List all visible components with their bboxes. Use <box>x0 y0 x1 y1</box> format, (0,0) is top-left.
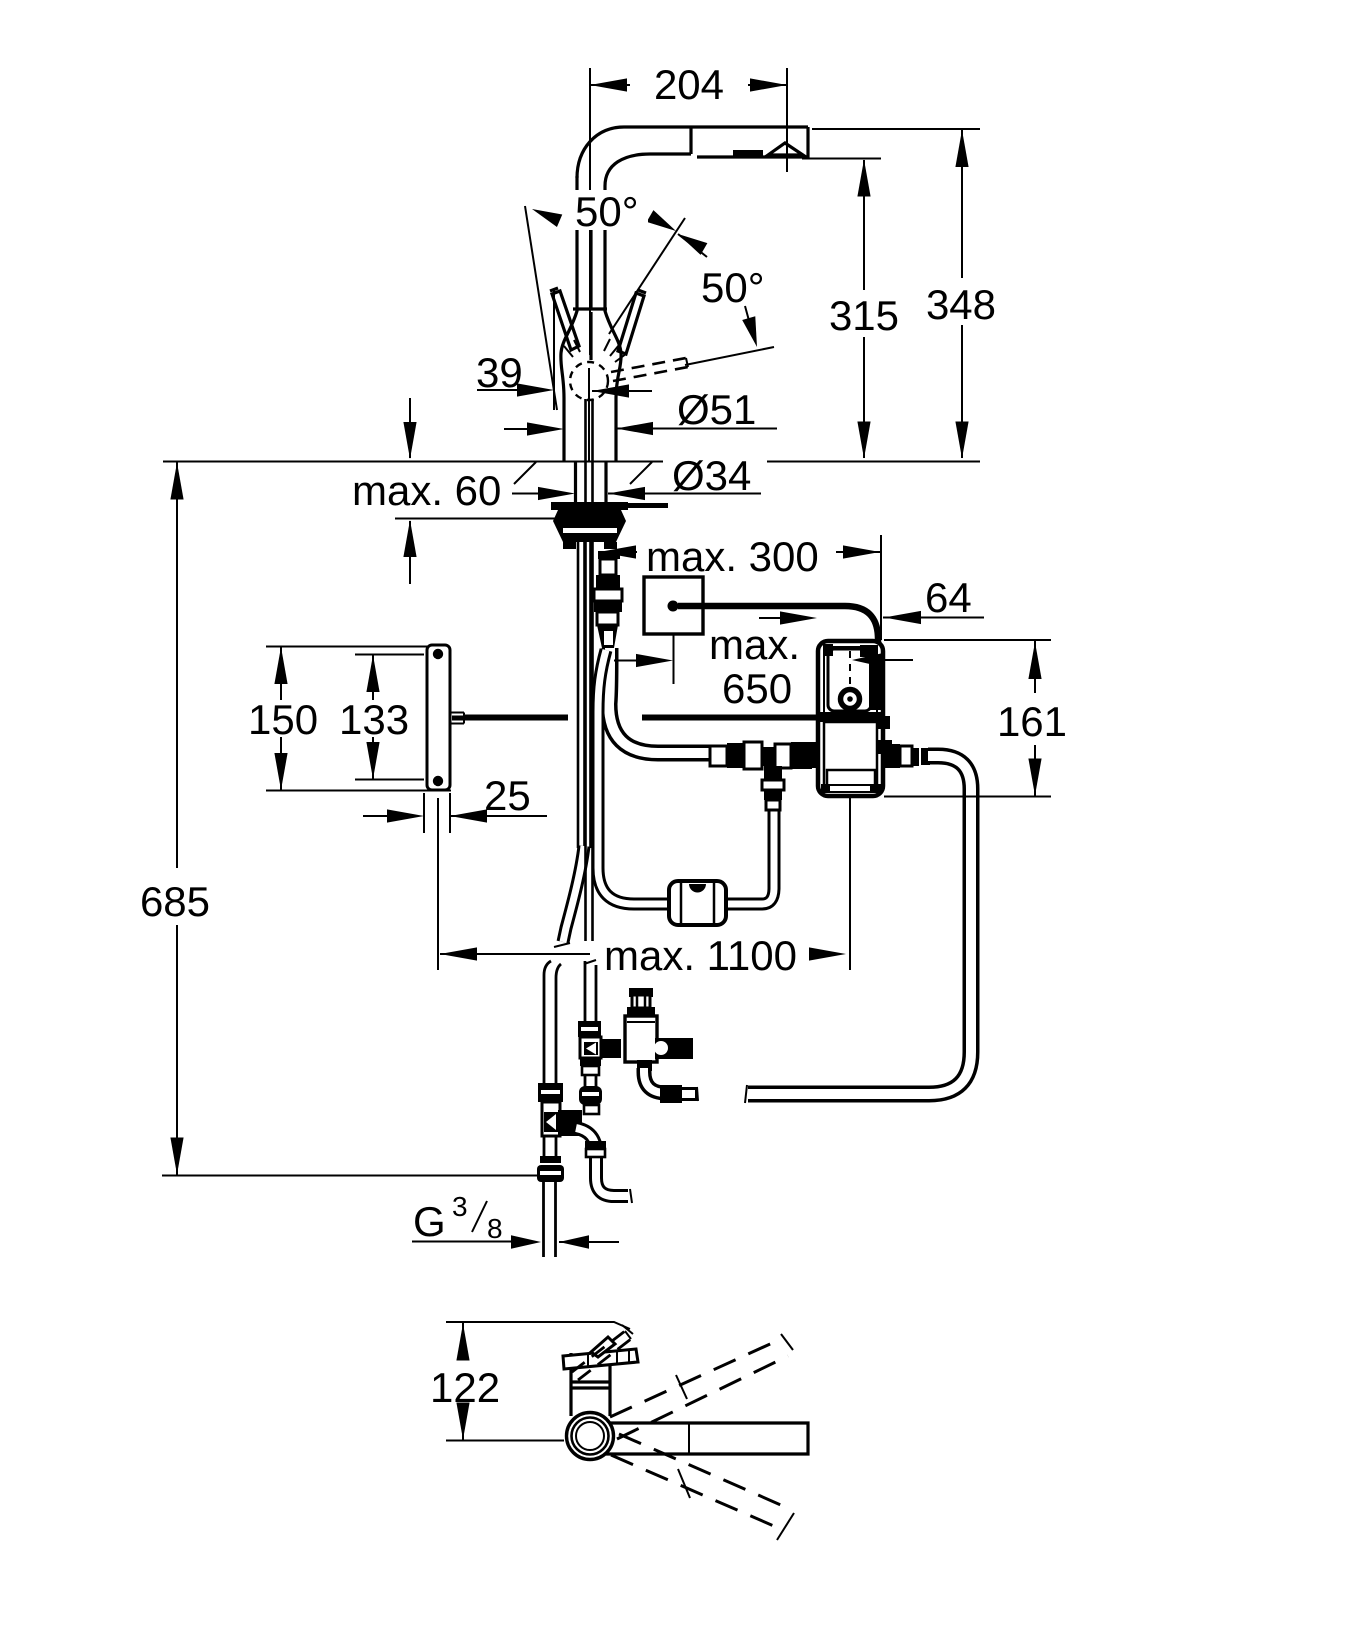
hose from tee A down to open end <box>576 1128 628 1196</box>
dim max60 vertical <box>409 398 411 584</box>
output hose down to drain hose <box>748 756 971 1094</box>
handle base tick <box>573 307 607 310</box>
dim 64 <box>883 617 984 619</box>
box mid dark band <box>820 712 881 722</box>
sensor dashed centerline <box>849 651 851 688</box>
tee B right branch <box>601 1039 621 1058</box>
svg-text:Ø34: Ø34 <box>672 452 751 499</box>
body rect above <box>571 1353 610 1416</box>
dim 161 <box>884 640 1051 797</box>
solid lever <box>563 1349 638 1369</box>
svg-text:161: 161 <box>997 698 1067 745</box>
dim 122 line <box>462 1323 464 1440</box>
threaded shank below counter <box>576 462 607 505</box>
output fitting right of control box <box>884 744 900 768</box>
thick reference line left segment <box>464 715 568 721</box>
tee A right branch elbow <box>558 1110 582 1136</box>
ferrite weight on cable <box>669 881 726 925</box>
spout outer bend <box>577 127 624 178</box>
faucet centerline <box>588 368 590 461</box>
svg-text:150: 150 <box>248 696 318 743</box>
mounting plate <box>427 645 450 790</box>
handle lowered end cap <box>686 358 688 367</box>
dim 685 <box>176 462 178 1175</box>
svg-text:64: 64 <box>925 574 972 621</box>
thick reference line right segment <box>642 715 818 721</box>
svg-text:50°: 50° <box>701 264 765 311</box>
solid lever diagonal tip <box>591 1337 615 1357</box>
dim 39 <box>477 290 652 410</box>
tee A body <box>542 1102 560 1136</box>
svg-text:max. 1100: max. 1100 <box>604 932 797 979</box>
50 right leader line <box>685 306 774 365</box>
dim max300 <box>612 551 881 553</box>
svg-text:8: 8 <box>487 1213 503 1244</box>
dim max650 arrows <box>614 618 782 684</box>
svg-text:G: G <box>413 1198 446 1245</box>
svg-text:max. 300: max. 300 <box>646 533 819 580</box>
685 bottom reference line <box>162 1175 538 1177</box>
plate tab <box>450 713 464 724</box>
dim 150 <box>266 646 451 791</box>
angle stop nut <box>537 1165 564 1182</box>
dim 204 line <box>590 84 787 86</box>
dim max1100 <box>438 798 590 970</box>
sensor window <box>828 649 871 711</box>
escutcheon flange <box>551 502 628 510</box>
sensor LED circle <box>841 690 860 709</box>
box lower inner parts <box>824 722 877 788</box>
svg-text:50°: 50° <box>575 188 639 235</box>
valve right port and elbow fitting <box>655 1038 693 1059</box>
dim D34 <box>512 493 761 495</box>
below tee B rings <box>580 1058 601 1066</box>
hose from faucet to fitting train <box>609 648 712 753</box>
dashed swing arm lower <box>611 1434 790 1530</box>
50 crossing arrows <box>647 210 680 237</box>
cable from wall box to control box <box>678 606 878 646</box>
supply pipe upper (column B) <box>585 961 596 1022</box>
svg-text:25: 25 <box>484 772 531 819</box>
svg-text:122: 122 <box>430 1364 500 1411</box>
supply tail pipe to G3/8 <box>544 1182 556 1257</box>
collar A <box>538 1083 563 1102</box>
dim 133 <box>355 654 424 780</box>
inline fitting train to control box <box>710 746 727 766</box>
sensor cable loop down to ferrite <box>598 650 774 904</box>
svg-text:204: 204 <box>654 61 724 108</box>
svg-text:max. 60: max. 60 <box>352 467 501 514</box>
spout bar <box>606 1423 808 1454</box>
spout inner bend <box>605 154 650 186</box>
svg-text:Ø51: Ø51 <box>677 386 756 433</box>
50 left arrow at line <box>529 203 562 227</box>
spray head outline <box>697 127 808 157</box>
svg-text:315: 315 <box>829 292 899 339</box>
pipe left edge <box>561 176 577 461</box>
dim 122 extension lines <box>446 1322 630 1441</box>
ball joint rays <box>564 339 626 362</box>
dim 348 line <box>961 130 963 458</box>
supply pipe column A <box>544 961 561 978</box>
dim 204 extension lines <box>590 68 787 355</box>
dashed swing arm upper <box>610 1339 788 1439</box>
valve bottom elbow <box>637 1060 652 1071</box>
fitting on that hose <box>585 1141 606 1149</box>
body circles <box>567 1413 614 1460</box>
ext line 348 top <box>812 128 980 130</box>
spray head divider <box>689 127 692 154</box>
ball joint dashed circle <box>570 362 608 400</box>
below tee A pipe <box>544 1136 556 1156</box>
handle lever left position <box>550 288 579 350</box>
svg-text:133: 133 <box>339 696 409 743</box>
dim 315 line <box>863 160 865 458</box>
hose check valve connector stack <box>598 551 620 559</box>
svg-text:max.: max. <box>709 621 800 668</box>
pipe middle line <box>589 190 592 360</box>
tee B body <box>580 1037 601 1058</box>
50 left text <box>570 190 648 230</box>
ext line 315 top <box>802 158 881 160</box>
aerator triangle <box>768 143 803 155</box>
control box body <box>818 641 883 796</box>
50 left extension line <box>525 206 557 410</box>
max60 lower reference line <box>395 518 565 520</box>
counter hatch marks <box>514 462 652 484</box>
small arrow into box <box>878 659 913 661</box>
dim G3/8 <box>412 1241 619 1244</box>
check valve body <box>629 988 653 997</box>
control box bottom extension down <box>849 796 851 970</box>
handle lever right position <box>618 290 646 354</box>
supply pipe collar B <box>578 1021 601 1037</box>
dim D51 <box>504 428 777 431</box>
svg-text:348: 348 <box>926 281 996 328</box>
pull-out hose hanging end <box>563 846 584 942</box>
spout tube bottom line <box>650 152 691 155</box>
svg-text:650: 650 <box>722 665 792 712</box>
svg-text:39: 39 <box>476 349 523 396</box>
wall box square <box>644 577 703 634</box>
dashed raised lever <box>572 1331 631 1380</box>
handle lowered dashed outline <box>611 358 688 381</box>
dim 25 <box>363 793 547 833</box>
pipe right edge <box>605 186 621 461</box>
tee branch down from train <box>764 766 782 780</box>
mounting nut <box>553 510 626 542</box>
svg-text:3: 3 <box>452 1191 468 1222</box>
max300 right extension <box>880 535 882 640</box>
counter top line <box>163 461 980 463</box>
spout top line <box>624 125 808 128</box>
spray head button dash <box>733 150 763 157</box>
pull-out hose below faucet <box>578 505 591 850</box>
50 second extension line <box>609 218 685 334</box>
svg-text:685: 685 <box>140 878 210 925</box>
supply pipe from shank down <box>586 399 593 941</box>
